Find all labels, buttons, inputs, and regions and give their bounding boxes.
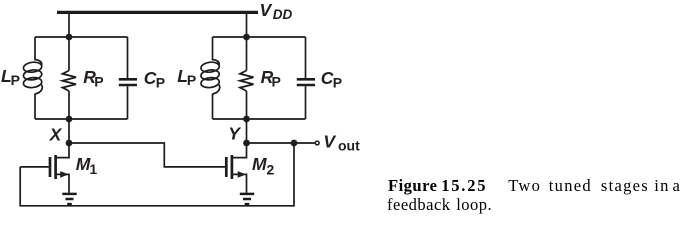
tank2 top wire [213,36,306,38]
svg-text:1: 1 [89,161,97,177]
inductor LP1 [23,37,42,119]
wire VDD to tank1 [68,12,70,37]
gate lead M1 [20,166,49,168]
wire node Y to Vout terminal [247,142,315,144]
label RP2 [261,67,281,90]
label LP1 [1,66,20,88]
label X [49,125,63,145]
drain lead M1 [57,143,69,158]
svg-text:P: P [333,75,342,91]
source arrow M1 [60,171,68,178]
transistor M2 [226,143,246,193]
wire tank1 bottom to node X [68,119,70,143]
node tank1 bottom junction [66,116,73,123]
capacitor CP2 [297,37,315,119]
label M2 [252,154,275,178]
source lead M2 [233,174,246,192]
wire tank2 bottom to node Y [246,119,248,143]
gate bar M1 [49,157,52,177]
label CP2 [321,68,342,91]
svg-text:P: P [187,72,196,88]
svg-text:V: V [260,0,273,20]
label Vout [323,132,360,154]
svg-text:P: P [156,75,165,91]
ground M2 [240,194,254,204]
svg-text:P: P [11,72,20,88]
svg-text:DD: DD [273,7,293,22]
inductor LP2 [200,37,219,119]
node feedback junction [291,140,298,147]
svg-text:M: M [252,154,267,174]
wire VDD to tank2 [246,12,248,37]
node Y junction [243,140,250,147]
node tank1 top junction [66,34,73,41]
tank2 bottom wire [213,118,306,120]
channel bar M2 [231,155,234,179]
label Y [228,124,241,144]
channel bar M1 [54,155,57,179]
svg-text:P: P [272,74,281,90]
node tank2 top junction [243,34,250,41]
node tank2 bottom junction [243,116,250,123]
svg-text:out: out [338,137,360,153]
svg-text:P: P [94,74,103,90]
resistor RP1 [63,37,77,119]
label CP1 [144,68,165,91]
svg-text:X: X [49,125,63,145]
tank1 bottom wire [35,118,128,120]
drain lead M2 [233,143,246,158]
Vout terminal [315,141,319,145]
wire node X to M2 gate [69,143,225,167]
gate bar M2 [225,157,228,177]
source lead M1 [57,174,69,192]
resistor RP2 [240,37,254,119]
figure caption [387,177,389,179]
transistor M1 [20,143,69,193]
label M1 [76,154,98,177]
capacitor CP1 [119,37,137,119]
source arrow M2 [238,171,246,178]
node X junction [66,140,73,147]
svg-text:Y: Y [228,124,241,144]
svg-text:2: 2 [267,162,275,178]
VDD label [260,0,293,22]
ground M1 [62,194,76,204]
label RP1 [83,67,103,90]
feedback wire [20,143,294,206]
label LP2 [177,66,196,88]
tank1 top wire [35,36,128,38]
VDD rail [57,11,258,14]
svg-text:V: V [323,132,336,152]
